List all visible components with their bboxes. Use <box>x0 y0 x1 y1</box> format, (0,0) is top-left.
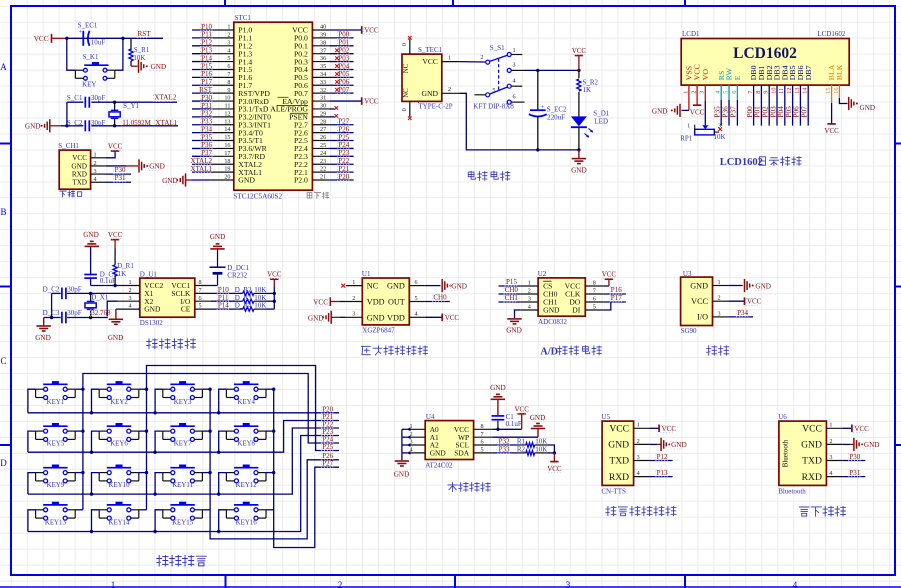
svg-text:GND: GND <box>210 233 226 241</box>
svg-text:LCD1602: LCD1602 <box>720 157 763 168</box>
svg-text:12: 12 <box>224 110 230 117</box>
svg-text:P07: P07 <box>338 86 349 94</box>
svg-text:Bluetooth: Bluetooth <box>778 487 806 495</box>
svg-text:XTAL2: XTAL2 <box>190 157 212 165</box>
svg-text:P03: P03 <box>338 54 349 62</box>
svg-text:1: 1 <box>528 279 531 286</box>
svg-text:VCC: VCC <box>313 299 328 307</box>
svg-text:VCC: VCC <box>34 35 49 43</box>
svg-text:STC1: STC1 <box>235 14 252 22</box>
svg-text:GND: GND <box>608 440 629 451</box>
svg-text:4: 4 <box>227 47 230 54</box>
svg-text:TXD: TXD <box>609 456 629 467</box>
svg-text:P04: P04 <box>777 106 785 118</box>
svg-text:P35: P35 <box>714 106 722 118</box>
svg-text:GND: GND <box>162 177 178 185</box>
svg-text:11.0592M: 11.0592M <box>122 119 151 127</box>
svg-text:GND: GND <box>71 162 87 170</box>
svg-text:DB7: DB7 <box>804 65 813 80</box>
svg-text:P03: P03 <box>769 106 777 118</box>
svg-text:P22: P22 <box>338 157 349 165</box>
svg-text:P37: P37 <box>730 106 738 118</box>
svg-text:30: 30 <box>320 103 326 110</box>
svg-text:S_CH1: S_CH1 <box>58 142 79 150</box>
svg-text:VCC: VCC <box>854 425 869 433</box>
svg-text:TXD: TXD <box>802 456 822 467</box>
svg-text:P2.0: P2.0 <box>294 176 308 185</box>
svg-text:10K: 10K <box>133 54 145 62</box>
svg-text:10K: 10K <box>254 302 266 310</box>
svg-text:21: 21 <box>320 174 326 181</box>
svg-text:XTAL1: XTAL1 <box>190 165 212 173</box>
svg-text:CH1: CH1 <box>505 294 519 302</box>
svg-text:VCC: VCC <box>824 127 839 135</box>
svg-text:KEY16: KEY16 <box>236 519 258 526</box>
svg-text:2: 2 <box>829 438 832 445</box>
svg-text:P02: P02 <box>762 106 770 118</box>
svg-text:GND: GND <box>422 89 439 98</box>
svg-text:P00: P00 <box>746 106 754 118</box>
svg-text:VCC: VCC <box>72 154 87 162</box>
svg-text:P12: P12 <box>201 39 212 47</box>
svg-text:S_Y1: S_Y1 <box>123 102 139 110</box>
svg-text:I/O: I/O <box>697 313 708 322</box>
svg-text:GND: GND <box>506 326 522 334</box>
svg-text:0: 0 <box>401 108 408 111</box>
svg-text:220uF: 220uF <box>547 113 565 121</box>
svg-text:VCC: VCC <box>662 425 677 433</box>
svg-text:37: 37 <box>320 47 326 54</box>
svg-text:GND: GND <box>671 441 687 449</box>
svg-text:2: 2 <box>129 287 132 294</box>
svg-text:27: 27 <box>320 126 326 133</box>
svg-text:NC: NC <box>403 88 410 98</box>
svg-text:CE: CE <box>181 305 191 314</box>
svg-text:D_R4: D_R4 <box>235 302 252 310</box>
svg-text:LCD1602: LCD1602 <box>817 30 846 38</box>
svg-text:TXD: TXD <box>72 179 87 187</box>
svg-text:40: 40 <box>320 24 326 31</box>
svg-text:1: 1 <box>718 279 721 286</box>
svg-text:Bluetooth: Bluetooth <box>781 439 789 467</box>
svg-text:GND: GND <box>755 282 771 290</box>
svg-text:VO: VO <box>701 69 710 81</box>
svg-text:5: 5 <box>492 87 495 94</box>
svg-text:3: 3 <box>227 39 230 46</box>
svg-text:B: B <box>0 207 6 217</box>
svg-text:14: 14 <box>224 126 230 133</box>
svg-text:0.1uF: 0.1uF <box>506 420 522 428</box>
svg-text:4: 4 <box>829 470 832 477</box>
svg-text:13: 13 <box>224 118 230 125</box>
svg-text:P16: P16 <box>611 286 622 294</box>
svg-text:P14: P14 <box>218 302 229 310</box>
svg-text:P06: P06 <box>338 78 349 86</box>
svg-text:6: 6 <box>227 63 230 70</box>
svg-text:GND: GND <box>652 107 668 115</box>
svg-text:P32: P32 <box>499 438 510 446</box>
svg-text:XTAL1: XTAL1 <box>155 119 178 127</box>
svg-text:ADC0832: ADC0832 <box>538 318 567 326</box>
svg-text:3: 3 <box>699 91 706 94</box>
svg-text:RST: RST <box>199 86 213 94</box>
svg-text:D_C2: D_C2 <box>43 286 60 294</box>
svg-text:10K: 10K <box>254 294 266 302</box>
svg-text:23: 23 <box>320 158 326 165</box>
svg-text:13: 13 <box>794 88 801 94</box>
svg-text:0.1uF: 0.1uF <box>100 277 116 285</box>
svg-text:KEY5: KEY5 <box>47 441 65 448</box>
svg-text:KEY2: KEY2 <box>110 399 128 406</box>
svg-text:P36: P36 <box>201 141 212 149</box>
svg-text:R1: R1 <box>517 438 526 446</box>
svg-text:GND: GND <box>238 176 255 185</box>
svg-text:CR232: CR232 <box>227 271 247 279</box>
svg-text:P32: P32 <box>201 110 212 118</box>
svg-text:17: 17 <box>224 150 230 157</box>
svg-text:10K: 10K <box>535 446 547 454</box>
svg-text:P21: P21 <box>338 165 349 173</box>
svg-text:3: 3 <box>718 310 721 317</box>
svg-text:15: 15 <box>825 88 832 94</box>
svg-text:4: 4 <box>415 311 418 318</box>
svg-text:VCC: VCC <box>422 57 438 66</box>
svg-text:P04: P04 <box>338 62 349 70</box>
svg-text:P14: P14 <box>201 54 212 62</box>
svg-text:P31: P31 <box>115 174 126 182</box>
svg-text:VCC: VCC <box>445 314 460 322</box>
svg-text:3: 3 <box>94 168 97 175</box>
svg-text:VCC: VCC <box>802 424 822 435</box>
svg-text:10: 10 <box>224 95 230 102</box>
svg-text:VCC: VCC <box>364 27 379 35</box>
svg-text:19: 19 <box>224 166 230 173</box>
svg-text:GND: GND <box>108 334 124 342</box>
svg-text:S_S1: S_S1 <box>490 44 505 52</box>
svg-text:P11: P11 <box>218 294 229 302</box>
svg-text:8: 8 <box>481 423 484 430</box>
svg-text:33: 33 <box>320 79 326 86</box>
svg-text:8: 8 <box>199 279 202 286</box>
svg-text:GND: GND <box>367 313 385 322</box>
svg-text:KEY4: KEY4 <box>237 399 255 406</box>
svg-text:5: 5 <box>415 295 418 302</box>
svg-text:P27: P27 <box>338 118 349 126</box>
svg-text:3: 3 <box>566 580 571 588</box>
svg-text:P00: P00 <box>338 31 349 39</box>
svg-text:7: 7 <box>227 71 230 78</box>
svg-text:1: 1 <box>129 279 132 286</box>
svg-text:S_EC1: S_EC1 <box>78 22 98 30</box>
svg-text:RP1: RP1 <box>680 135 693 143</box>
svg-text:36: 36 <box>320 55 326 62</box>
svg-text:GND: GND <box>801 440 822 451</box>
svg-text:A/D: A/D <box>540 346 558 357</box>
svg-text:A: A <box>0 62 7 72</box>
svg-text:BLK: BLK <box>835 64 844 80</box>
svg-text:CN-TTS: CN-TTS <box>601 487 626 495</box>
svg-text:12: 12 <box>786 88 793 94</box>
svg-text:16: 16 <box>833 88 840 94</box>
svg-text:10: 10 <box>770 88 777 94</box>
svg-text:29: 29 <box>320 110 326 117</box>
svg-text:P13: P13 <box>201 46 212 54</box>
svg-text:P13: P13 <box>657 469 668 477</box>
svg-text:6: 6 <box>199 295 202 302</box>
svg-text:30pF: 30pF <box>91 94 106 102</box>
svg-text:GND: GND <box>860 104 876 112</box>
svg-text:DI: DI <box>572 306 580 315</box>
svg-text:GND: GND <box>490 384 506 392</box>
svg-text:AT24C02: AT24C02 <box>425 462 453 470</box>
svg-text:P33: P33 <box>201 118 212 126</box>
svg-text:1K: 1K <box>118 270 127 278</box>
svg-text:14: 14 <box>802 87 809 94</box>
svg-text:9: 9 <box>763 91 770 94</box>
svg-text:GND: GND <box>151 63 167 71</box>
svg-text:P24: P24 <box>338 141 349 149</box>
svg-text:KEY13: KEY13 <box>45 519 67 526</box>
svg-text:S_C1: S_C1 <box>67 94 83 102</box>
svg-text:OUT: OUT <box>388 298 405 307</box>
svg-text:VCC: VCC <box>691 297 708 306</box>
svg-text:10K: 10K <box>714 133 726 141</box>
svg-text:P12: P12 <box>657 453 668 461</box>
svg-text:P06: P06 <box>793 106 801 118</box>
svg-text:18: 18 <box>224 158 230 165</box>
svg-text:6: 6 <box>481 439 484 446</box>
svg-text:2: 2 <box>637 438 640 445</box>
svg-text:11: 11 <box>225 103 231 110</box>
svg-text:S_K1: S_K1 <box>83 53 99 61</box>
svg-text:CH0: CH0 <box>433 294 447 302</box>
svg-text:7: 7 <box>199 287 202 294</box>
svg-text:P15: P15 <box>201 62 212 70</box>
svg-text:2: 2 <box>352 295 355 302</box>
svg-text:VCC: VCC <box>547 465 562 473</box>
svg-text:34: 34 <box>320 71 326 78</box>
svg-text:S_D1: S_D1 <box>593 110 609 118</box>
svg-text:KFT DIP-8X8: KFT DIP-8X8 <box>473 102 514 110</box>
svg-text:P31: P31 <box>201 102 212 110</box>
svg-text:1: 1 <box>448 55 451 62</box>
svg-text:D_R1: D_R1 <box>117 262 134 270</box>
svg-text:1: 1 <box>513 47 516 54</box>
svg-text:22: 22 <box>320 166 326 173</box>
svg-text:10K: 10K <box>254 286 266 294</box>
svg-text:5: 5 <box>227 55 230 62</box>
svg-text:GND: GND <box>308 314 324 322</box>
svg-text:20: 20 <box>224 174 230 181</box>
svg-text:RST: RST <box>138 30 152 38</box>
svg-text:P35: P35 <box>201 133 212 141</box>
svg-text:KEY1: KEY1 <box>47 399 65 406</box>
svg-text:P25: P25 <box>322 443 333 451</box>
svg-text:GND: GND <box>451 282 467 290</box>
svg-text:LED: LED <box>594 117 608 125</box>
svg-text:P37: P37 <box>201 149 212 157</box>
svg-text:11: 11 <box>778 88 785 94</box>
svg-text:XTAL2: XTAL2 <box>154 94 177 102</box>
svg-text:R2: R2 <box>517 446 526 454</box>
svg-text:D_R2: D_R2 <box>235 286 252 294</box>
svg-text:P11: P11 <box>201 31 212 39</box>
svg-text:U5: U5 <box>601 413 610 421</box>
svg-text:7: 7 <box>593 287 596 294</box>
svg-text:1K: 1K <box>583 86 592 94</box>
svg-text:3: 3 <box>637 454 640 461</box>
svg-text:2: 2 <box>718 295 721 302</box>
svg-text:3: 3 <box>528 295 531 302</box>
svg-text:10uF: 10uF <box>91 38 106 46</box>
svg-text:2: 2 <box>528 287 531 294</box>
svg-text:KEY10: KEY10 <box>108 482 130 489</box>
svg-text:31: 31 <box>320 95 326 102</box>
svg-text:4: 4 <box>793 580 798 588</box>
svg-text:GND: GND <box>149 163 165 171</box>
svg-text:U1: U1 <box>362 270 371 278</box>
svg-text:7: 7 <box>747 91 754 94</box>
svg-text:VCC: VCC <box>690 108 705 116</box>
svg-text:P15: P15 <box>506 278 517 286</box>
svg-text:30pF: 30pF <box>67 286 82 294</box>
svg-text:S_TEC1: S_TEC1 <box>418 46 443 54</box>
svg-text:+: + <box>541 104 545 111</box>
svg-text:NC: NC <box>403 63 410 73</box>
svg-text:39: 39 <box>320 31 326 38</box>
svg-text:15: 15 <box>224 134 230 141</box>
svg-text:2: 2 <box>691 91 698 94</box>
svg-text:GND: GND <box>394 470 410 478</box>
svg-text:30pF: 30pF <box>91 119 106 127</box>
svg-text:8: 8 <box>755 91 762 94</box>
svg-text:4: 4 <box>637 470 640 477</box>
svg-text:SDA: SDA <box>454 449 469 458</box>
svg-text:25: 25 <box>320 142 326 149</box>
svg-text:5: 5 <box>593 303 596 310</box>
svg-text:DS1302: DS1302 <box>140 319 163 327</box>
svg-text:5: 5 <box>722 91 729 94</box>
svg-text:1: 1 <box>687 124 690 130</box>
svg-text:KEY12: KEY12 <box>236 482 258 489</box>
svg-text:C: C <box>0 356 6 366</box>
svg-text:GND: GND <box>35 334 51 342</box>
svg-text:P01: P01 <box>754 106 762 118</box>
svg-text:U4: U4 <box>426 413 435 421</box>
svg-text:LCD1602: LCD1602 <box>733 45 797 62</box>
svg-text:P23: P23 <box>338 149 349 157</box>
svg-text:26: 26 <box>320 134 326 141</box>
svg-text:VCC: VCC <box>514 405 529 413</box>
svg-text:28: 28 <box>320 118 326 125</box>
svg-text:9: 9 <box>227 87 230 94</box>
svg-text:4: 4 <box>94 176 97 183</box>
svg-text:P01: P01 <box>338 39 349 47</box>
svg-text:7: 7 <box>481 431 484 438</box>
svg-text:GND: GND <box>543 306 560 315</box>
svg-text:38: 38 <box>320 39 326 46</box>
svg-text:16: 16 <box>224 142 230 149</box>
svg-text:NC: NC <box>367 282 379 291</box>
svg-text:P16: P16 <box>201 70 212 78</box>
svg-text:XGZP6847: XGZP6847 <box>362 327 395 335</box>
svg-text:SG90: SG90 <box>681 327 697 335</box>
svg-text:KEY9: KEY9 <box>47 482 65 489</box>
svg-text:P27: P27 <box>322 460 333 468</box>
svg-text:P10: P10 <box>218 286 229 294</box>
svg-text:P30: P30 <box>201 94 212 102</box>
svg-text:0: 0 <box>401 43 408 46</box>
svg-text:KEY6: KEY6 <box>110 441 128 448</box>
svg-text:6: 6 <box>731 91 738 94</box>
svg-text:35: 35 <box>320 63 326 70</box>
svg-text:RXD: RXD <box>609 472 629 483</box>
svg-text:P34: P34 <box>201 125 212 133</box>
svg-text:P30: P30 <box>849 453 860 461</box>
svg-text:CH0: CH0 <box>505 286 519 294</box>
svg-text:1: 1 <box>227 24 230 31</box>
svg-text:P05: P05 <box>785 106 793 118</box>
svg-text:24: 24 <box>320 150 326 157</box>
svg-text:1: 1 <box>111 580 116 588</box>
svg-text:2: 2 <box>338 580 343 588</box>
svg-text:U6: U6 <box>778 413 787 421</box>
svg-text:3: 3 <box>513 62 516 69</box>
svg-text:8: 8 <box>593 279 596 286</box>
svg-text:KEY8: KEY8 <box>237 441 255 448</box>
svg-text:2: 2 <box>227 31 230 38</box>
svg-text:KEY: KEY <box>82 81 96 89</box>
svg-text:VCC: VCC <box>572 47 587 55</box>
svg-text:KEY14: KEY14 <box>108 519 130 526</box>
svg-text:RXD: RXD <box>802 472 822 483</box>
svg-text:GND: GND <box>144 305 161 314</box>
svg-text:GND: GND <box>864 441 880 449</box>
svg-text:GND: GND <box>571 166 587 174</box>
svg-text:D_U1: D_U1 <box>140 270 158 278</box>
svg-text:1: 1 <box>682 91 689 94</box>
svg-text:TYPE-C-2P: TYPE-C-2P <box>418 102 452 110</box>
svg-text:VCC: VCC <box>364 98 379 106</box>
svg-text:D_R3: D_R3 <box>235 294 252 302</box>
svg-text:GND: GND <box>530 414 546 422</box>
svg-text:KEY11: KEY11 <box>172 482 193 489</box>
svg-text:P36: P36 <box>721 106 729 118</box>
svg-text:S_R1: S_R1 <box>134 46 150 54</box>
svg-text:P34: P34 <box>737 309 748 317</box>
svg-text:1: 1 <box>352 279 355 286</box>
svg-text:GND: GND <box>690 281 708 290</box>
svg-text:P31: P31 <box>849 469 860 477</box>
svg-text:4: 4 <box>513 78 516 85</box>
svg-text:VDD: VDD <box>367 298 385 307</box>
svg-text:2: 2 <box>480 54 483 61</box>
svg-text:E: E <box>733 75 742 80</box>
svg-text:GND: GND <box>430 449 447 458</box>
svg-text:1: 1 <box>637 422 640 429</box>
svg-text:KEY15: KEY15 <box>172 519 194 526</box>
svg-text:P30: P30 <box>115 166 126 174</box>
svg-text:KEY3: KEY3 <box>174 399 192 406</box>
svg-text:STC12C5A60S2: STC12C5A60S2 <box>233 193 282 201</box>
svg-text:3: 3 <box>129 295 132 302</box>
svg-text:GND: GND <box>25 122 41 130</box>
svg-text:P05: P05 <box>338 70 349 78</box>
svg-text:2: 2 <box>448 86 451 93</box>
svg-text:VCC: VCC <box>267 271 282 279</box>
svg-text:GND: GND <box>83 231 99 239</box>
svg-text:4: 4 <box>528 303 531 310</box>
